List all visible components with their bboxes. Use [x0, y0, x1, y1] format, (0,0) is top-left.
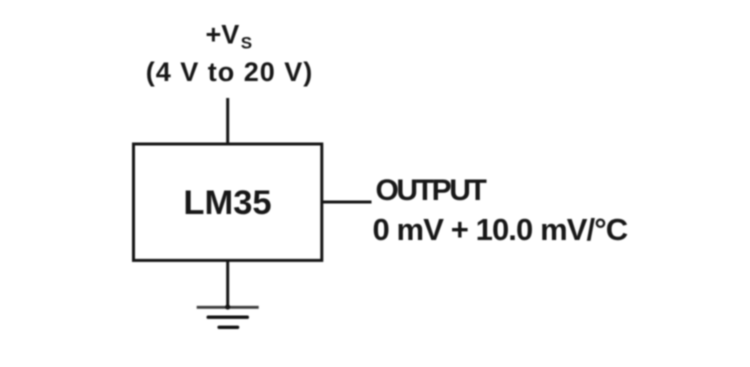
svg-text:+V: +V [206, 20, 240, 50]
wire from box right to OUTPUT [322, 201, 372, 204]
wire from +Vs to box top [226, 98, 229, 144]
ground [197, 304, 259, 327]
svg-text:0 mV + 10.0 mV/°C: 0 mV + 10.0 mV/°C [373, 212, 628, 247]
svg-text:OUTPUT: OUTPUT [376, 174, 487, 207]
svg-text:(4 V to 20 V): (4 V to 20 V) [146, 57, 314, 87]
node +Vs label [206, 20, 253, 53]
wire from box bottom to ground [226, 260, 229, 307]
svg-text:LM35: LM35 [183, 184, 271, 222]
svg-text:S: S [241, 34, 252, 53]
LM35 box [134, 144, 322, 260]
